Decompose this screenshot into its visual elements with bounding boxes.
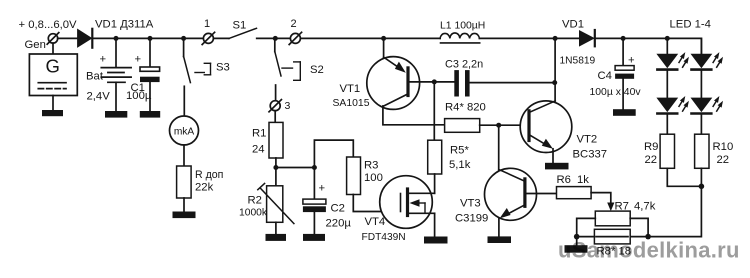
wire	[93, 37, 203, 39]
wire	[183, 198, 185, 212]
wire R4 node down to VT3	[498, 125, 500, 170]
wire R6 to R7 wiper	[591, 193, 614, 212]
svg-text:G: G	[46, 55, 60, 76]
capacitor C2 220µ	[303, 168, 351, 234]
node C2 top	[312, 165, 317, 170]
resistor R1 24	[252, 122, 283, 158]
svg-text:+: +	[135, 54, 142, 66]
svg-text:C2: C2	[331, 203, 345, 215]
ground	[488, 236, 512, 243]
resistor R6 1k	[557, 174, 592, 199]
wire	[666, 71, 668, 98]
svg-text:1: 1	[204, 18, 210, 30]
switch S1	[213, 20, 256, 39]
terminal 1	[202, 18, 214, 45]
svg-text:BC337: BC337	[573, 148, 608, 160]
node R9/R10 join	[699, 184, 705, 190]
wire	[596, 38, 702, 54]
node VT1 emitter	[381, 36, 386, 41]
svg-text:uSamodelkina.ru: uSamodelkina.ru	[558, 238, 740, 263]
svg-text:R1: R1	[252, 128, 266, 140]
svg-text:1000k: 1000k	[239, 208, 268, 219]
resistor R10 22	[695, 134, 734, 168]
wire	[479, 37, 579, 39]
capacitor C3 2,2n	[434, 59, 554, 95]
svg-text:22k: 22k	[195, 182, 214, 194]
transistor VT4 FDT439N	[362, 176, 435, 244]
potentiometer R7 4,7k	[577, 201, 656, 237]
variable resistor R2 1000k	[239, 168, 294, 224]
svg-text:R7: R7	[615, 201, 629, 213]
ground	[105, 111, 127, 118]
capacitor C1 100µ	[126, 38, 160, 111]
wire	[314, 140, 353, 167]
svg-text:C4: C4	[598, 70, 612, 82]
generator G	[29, 43, 77, 95]
node LED left string	[665, 36, 670, 41]
svg-text:100µ x 40v: 100µ x 40v	[590, 87, 642, 98]
meter mkA	[170, 116, 199, 145]
node VT1 base	[432, 79, 437, 84]
svg-text:1N5819: 1N5819	[560, 55, 596, 66]
ground	[424, 237, 448, 244]
node R8 left	[574, 234, 580, 240]
ground	[140, 111, 160, 118]
node VT2 collector top	[553, 36, 558, 41]
wire	[700, 115, 702, 135]
svg-text:VD1 Д311А: VD1 Д311А	[95, 19, 154, 31]
node S3 branch	[181, 36, 186, 41]
wire VT4 source	[434, 213, 436, 236]
wire R9/R10 bottoms	[667, 168, 701, 186]
svg-text:Bat: Bat	[86, 71, 104, 83]
svg-text:S2: S2	[310, 64, 324, 76]
wire	[274, 111, 276, 123]
diode VD1 1N5819	[560, 19, 596, 67]
svg-text:2: 2	[291, 18, 297, 30]
ground	[266, 234, 287, 241]
wire	[58, 37, 78, 39]
svg-text:5,1k: 5,1k	[449, 159, 471, 171]
node C4 top	[621, 36, 626, 41]
svg-text:R4* 820: R4* 820	[445, 102, 486, 114]
battery Bat 2,4V	[86, 38, 131, 111]
svg-text:100µ: 100µ	[126, 90, 152, 102]
wire	[576, 237, 578, 246]
resistor R9 22	[644, 134, 675, 168]
svg-text:22: 22	[645, 154, 658, 166]
wire LED right string top	[700, 38, 702, 54]
ground	[565, 245, 588, 253]
svg-text:VT2: VT2	[577, 134, 598, 146]
svg-text:R3: R3	[364, 160, 378, 172]
svg-text:+: +	[319, 183, 326, 195]
svg-text:LED 1-4: LED 1-4	[670, 19, 711, 31]
capacitor C4 100µ x 40v	[590, 38, 642, 109]
svg-text:100: 100	[364, 172, 383, 184]
wire	[275, 222, 277, 234]
resistor R4* 820	[445, 102, 499, 133]
ground	[613, 109, 636, 116]
svg-text:mkA: mkA	[174, 126, 195, 137]
ground	[303, 234, 325, 241]
svg-text:2,4V: 2,4V	[87, 91, 111, 103]
svg-text:Gen: Gen	[25, 39, 46, 51]
svg-text:C3199: C3199	[455, 213, 488, 225]
node S2 branch	[273, 36, 278, 41]
svg-text:R5*: R5*	[450, 145, 469, 157]
wire VT4 drain	[434, 174, 436, 193]
wire	[257, 37, 291, 39]
wire VT2 emitter	[552, 149, 554, 163]
svg-text:VD1: VD1	[562, 19, 584, 31]
node R8 right	[645, 234, 651, 240]
svg-text:SA1015: SA1015	[333, 98, 370, 109]
svg-text:C3 2,2n: C3 2,2n	[445, 59, 483, 71]
svg-text:R9: R9	[644, 141, 658, 153]
wire	[276, 167, 315, 169]
wire	[275, 85, 277, 101]
node C1 top	[148, 36, 153, 41]
wire	[666, 115, 668, 135]
diode VD1 Д311А	[78, 19, 154, 48]
svg-text:VT3: VT3	[460, 198, 481, 210]
svg-text:VT4: VT4	[365, 216, 386, 228]
svg-text:220µ: 220µ	[326, 218, 352, 230]
svg-text:+: +	[628, 54, 635, 66]
svg-text:R доп: R доп	[195, 169, 223, 181]
terminal 2	[289, 18, 301, 45]
svg-text:4,7k: 4,7k	[634, 201, 656, 213]
node battery top	[114, 36, 119, 41]
wire	[648, 186, 701, 236]
wire	[183, 145, 185, 166]
resistor R5* 5,1k	[428, 140, 471, 174]
svg-text:+: +	[100, 53, 107, 65]
wire	[700, 71, 702, 98]
resistor R3 100	[347, 157, 383, 195]
resistor R8* 18	[577, 229, 648, 257]
svg-text:3: 3	[285, 100, 291, 112]
terminal 3	[269, 100, 291, 112]
wire	[353, 195, 400, 212]
svg-text:S1: S1	[233, 20, 247, 32]
node R4 right	[496, 123, 501, 128]
wire	[275, 158, 277, 168]
node C3 right	[552, 80, 557, 85]
wire VT3 emitter	[498, 218, 500, 236]
LED 2	[657, 96, 689, 114]
LED 4	[692, 96, 724, 114]
svg-text:R6: R6	[557, 174, 571, 186]
svg-text:+ 0,8...6,0V: + 0,8...6,0V	[19, 19, 78, 31]
wire	[183, 86, 185, 116]
terminal Gen	[25, 33, 59, 51]
svg-text:22: 22	[717, 154, 730, 166]
ground	[173, 212, 196, 219]
switch S2	[275, 38, 324, 80]
resistor Rдоп 22k	[177, 166, 224, 198]
svg-text:L1 100µH: L1 100µH	[440, 21, 485, 32]
svg-text:1k: 1k	[577, 174, 589, 186]
wire VT1 collector	[383, 106, 445, 125]
ground	[545, 163, 569, 170]
svg-text:R2: R2	[248, 195, 262, 207]
svg-text:VT1: VT1	[340, 83, 361, 95]
wire R5 vertical	[433, 82, 435, 140]
wire R4 node to VT2 base	[499, 124, 528, 126]
LED 3	[692, 52, 724, 70]
LED 1	[657, 52, 689, 70]
wire LED left string top	[666, 38, 668, 54]
wire VT2 collector	[554, 38, 556, 101]
svg-text:R10: R10	[713, 141, 734, 153]
wire	[301, 37, 441, 39]
inductor L1 100µH	[440, 21, 485, 43]
transistor VT1 SA1015	[333, 38, 435, 109]
ground	[42, 96, 63, 117]
svg-text:S3: S3	[216, 62, 230, 74]
transistor VT2 BC337	[520, 101, 607, 161]
transistor VT3 C3199	[455, 168, 557, 224]
switch S3	[184, 38, 230, 82]
node R1 bottom	[273, 165, 278, 170]
svg-text:FDT439N: FDT439N	[362, 232, 406, 243]
svg-text:24: 24	[252, 144, 265, 156]
